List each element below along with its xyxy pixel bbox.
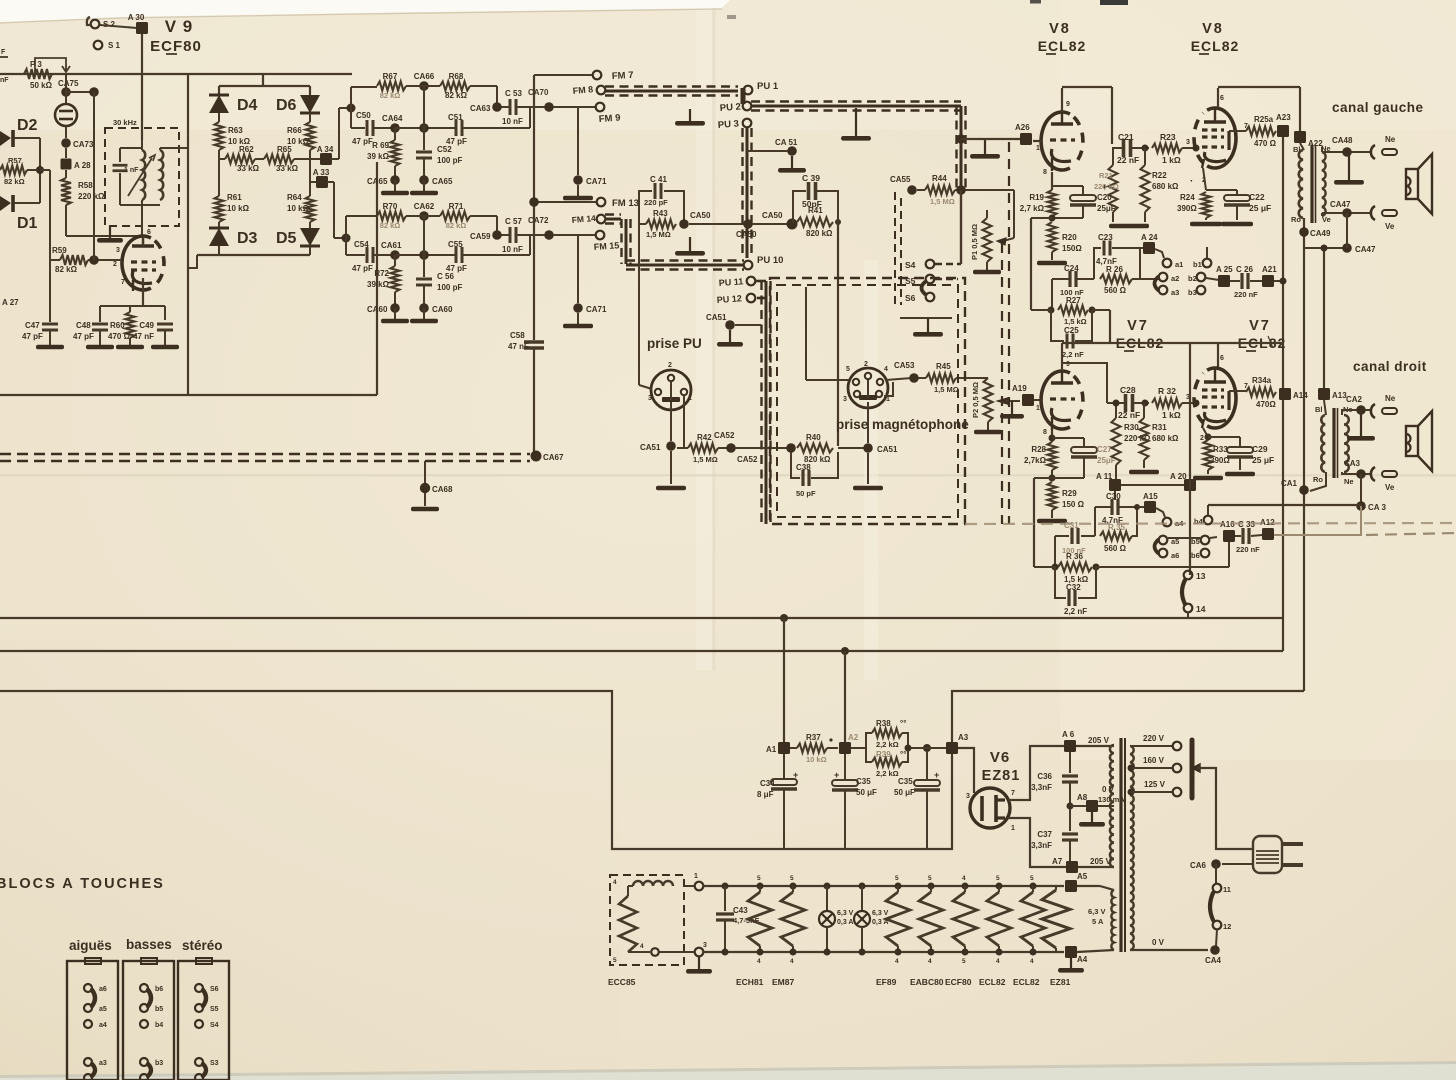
svg-text:1: 1 bbox=[694, 873, 698, 880]
svg-text:C21: C21 bbox=[1118, 132, 1134, 142]
svg-text:3,3nF: 3,3nF bbox=[1031, 783, 1052, 792]
node A7 bbox=[1052, 857, 1114, 873]
terminal 13 bbox=[1184, 571, 1206, 581]
svg-text:1,5 MΩ: 1,5 MΩ bbox=[934, 385, 959, 394]
wire CA3 down bbox=[1360, 474, 1362, 506]
svg-text:Ve: Ve bbox=[1385, 483, 1395, 492]
svg-text:R 32: R 32 bbox=[1158, 386, 1176, 396]
svg-text:C 41: C 41 bbox=[650, 175, 667, 184]
svg-text:1: 1 bbox=[688, 395, 692, 402]
wire A23 long vertical bbox=[1282, 137, 1284, 651]
svg-text:C23: C23 bbox=[1098, 233, 1113, 242]
svg-text:prise magnétophone: prise magnétophone bbox=[836, 417, 969, 432]
label V6 EZ81 bbox=[982, 749, 1021, 784]
svg-text:1,5 kΩ: 1,5 kΩ bbox=[1064, 317, 1087, 326]
svg-text:560 Ω: 560 Ω bbox=[1104, 544, 1127, 553]
svg-text:205 V: 205 V bbox=[1090, 857, 1112, 866]
svg-text:82 kΩ: 82 kΩ bbox=[380, 91, 401, 100]
svg-text:CA52: CA52 bbox=[714, 431, 735, 440]
resistor R20 bbox=[1037, 222, 1082, 265]
wire coil out bbox=[160, 147, 188, 149]
svg-text:CA65: CA65 bbox=[432, 177, 453, 186]
tap 220V bbox=[1130, 734, 1181, 750]
wire b5 east bbox=[1210, 537, 1217, 538]
svg-text:4: 4 bbox=[962, 875, 966, 882]
svg-text:12: 12 bbox=[1223, 922, 1231, 931]
node CA53 bbox=[894, 361, 919, 383]
svg-text:R33: R33 bbox=[1213, 445, 1228, 454]
terminal PU1 bbox=[743, 81, 779, 104]
svg-text:6: 6 bbox=[147, 229, 151, 236]
resistor R58 bbox=[61, 170, 105, 236]
svg-text:R57: R57 bbox=[8, 156, 22, 165]
resistor R22 bbox=[1141, 148, 1180, 222]
svg-text:R39: R39 bbox=[876, 750, 891, 759]
svg-text:C22: C22 bbox=[1249, 192, 1265, 202]
svg-text:4: 4 bbox=[1030, 958, 1034, 965]
junction C28 R32 bbox=[1142, 400, 1149, 407]
node CA68 ground bbox=[411, 461, 453, 511]
diode D4 bbox=[209, 86, 258, 114]
svg-text:82 kΩ: 82 kΩ bbox=[380, 221, 401, 230]
svg-text:D3: D3 bbox=[237, 230, 258, 247]
svg-text:a1: a1 bbox=[1175, 260, 1183, 269]
svg-text:13: 13 bbox=[1196, 571, 1206, 581]
svg-text:EZ81: EZ81 bbox=[982, 768, 1021, 784]
shield vertical P1 P2 bbox=[1002, 142, 1009, 524]
node A25 bbox=[1216, 265, 1233, 287]
node A6 bbox=[1062, 730, 1110, 752]
wire A20 vertical bbox=[1189, 343, 1191, 575]
svg-text:R66: R66 bbox=[287, 126, 302, 135]
svg-text:22 nF: 22 nF bbox=[1118, 410, 1140, 420]
node CA59 bbox=[470, 230, 502, 241]
svg-text:150Ω: 150Ω bbox=[1062, 244, 1082, 253]
mains plug bbox=[1253, 836, 1303, 873]
node A26 bbox=[1015, 123, 1032, 145]
svg-text:R63: R63 bbox=[228, 126, 243, 135]
capacitor C26 bbox=[1230, 265, 1262, 299]
svg-text:CA47: CA47 bbox=[1330, 200, 1351, 209]
prise PU socket bbox=[647, 336, 702, 410]
svg-text:A3: A3 bbox=[958, 733, 969, 742]
svg-text:4: 4 bbox=[884, 366, 888, 373]
node CA50a bbox=[679, 211, 711, 229]
node A30 bbox=[100, 22, 148, 34]
svg-text:CA50: CA50 bbox=[690, 211, 711, 220]
svg-text:39 kΩ: 39 kΩ bbox=[367, 152, 390, 161]
wire R41 down bbox=[837, 222, 839, 446]
svg-text:Ro: Ro bbox=[1313, 475, 1323, 484]
svg-text:EZ81: EZ81 bbox=[1050, 977, 1071, 987]
svg-text:220 kΩ: 220 kΩ bbox=[1094, 182, 1119, 191]
svg-text:C29: C29 bbox=[1252, 444, 1268, 454]
svg-text:a5: a5 bbox=[99, 1006, 107, 1013]
node A19 bbox=[1012, 384, 1034, 406]
wire R58 to coil bbox=[66, 235, 140, 237]
svg-text:47 nF: 47 nF bbox=[133, 332, 154, 341]
svg-text:R59: R59 bbox=[52, 246, 67, 255]
node A28 bbox=[61, 148, 92, 170]
shield stub CA55 bbox=[895, 192, 901, 305]
terminal 12 bbox=[1210, 893, 1231, 931]
svg-text:FM 14: FM 14 bbox=[571, 213, 596, 225]
wire to A13 bbox=[1321, 245, 1328, 389]
svg-text:b6: b6 bbox=[1191, 551, 1200, 560]
svg-text:33 kΩ: 33 kΩ bbox=[276, 164, 299, 173]
svg-text:470 Ω: 470 Ω bbox=[108, 332, 131, 341]
node A1 bbox=[766, 742, 790, 754]
label V7a bbox=[1116, 318, 1165, 351]
svg-text:5: 5 bbox=[928, 875, 932, 882]
svg-text:ECL82: ECL82 bbox=[1191, 38, 1240, 54]
wire OPT primary down long bbox=[1303, 218, 1305, 691]
svg-text:a3: a3 bbox=[1171, 288, 1179, 297]
label A27 bbox=[2, 298, 19, 307]
svg-text:0 V: 0 V bbox=[1152, 938, 1165, 947]
node CA50b bbox=[689, 219, 757, 239]
svg-text:5: 5 bbox=[962, 958, 966, 965]
svg-text:b6: b6 bbox=[155, 986, 163, 993]
svg-text:CA64: CA64 bbox=[382, 114, 403, 123]
svg-text:R19: R19 bbox=[1029, 193, 1044, 202]
svg-text:FM 15: FM 15 bbox=[593, 240, 619, 252]
svg-text:CA75: CA75 bbox=[58, 79, 79, 88]
diode D3 bbox=[209, 222, 258, 247]
node A16 bbox=[1220, 520, 1235, 567]
heater EF89 bbox=[886, 875, 910, 965]
svg-text:33 kΩ: 33 kΩ bbox=[237, 164, 260, 173]
terminal PU11 bbox=[718, 276, 755, 288]
capacitor C55 bbox=[446, 235, 530, 273]
terminal PU2 bbox=[719, 102, 751, 114]
svg-text:b3: b3 bbox=[1188, 288, 1197, 297]
svg-text:820 kΩ: 820 kΩ bbox=[806, 229, 833, 238]
resistor R64 bbox=[287, 193, 315, 222]
capacitor C54 bbox=[352, 240, 395, 273]
triode V7a bbox=[1036, 361, 1083, 436]
svg-text:R72: R72 bbox=[374, 269, 389, 278]
node A14 bbox=[1279, 388, 1308, 400]
svg-text:50 pF: 50 pF bbox=[796, 489, 816, 498]
svg-text:R61: R61 bbox=[227, 193, 242, 202]
svg-text:R71: R71 bbox=[449, 202, 464, 211]
wire R36 east bbox=[1034, 566, 1229, 568]
heater bus top bbox=[684, 873, 1064, 890]
svg-text:220 pF: 220 pF bbox=[644, 198, 668, 207]
svg-text:ECL82: ECL82 bbox=[1038, 38, 1087, 54]
tube labels heater bbox=[736, 977, 1071, 987]
svg-text:1: 1 bbox=[886, 396, 890, 403]
svg-text:C37: C37 bbox=[1037, 830, 1052, 839]
cathode network R19 C20 bbox=[1020, 172, 1116, 222]
svg-text:5: 5 bbox=[790, 875, 794, 882]
wire A6 to winding bbox=[1076, 745, 1114, 747]
svg-text:C25: C25 bbox=[1064, 326, 1079, 335]
svg-text:CA53: CA53 bbox=[894, 361, 915, 370]
svg-text:R34a: R34a bbox=[1252, 376, 1272, 385]
jack Ne droit bbox=[1371, 394, 1397, 418]
rectifier V6 bbox=[966, 788, 1015, 832]
cathode network R24 C22 bbox=[1177, 168, 1271, 226]
svg-text:R21: R21 bbox=[1099, 171, 1113, 180]
wire fb down bbox=[1034, 478, 1052, 567]
svg-text:7: 7 bbox=[1011, 790, 1015, 797]
svg-text:1,5 MΩ: 1,5 MΩ bbox=[693, 455, 718, 464]
power transformer bbox=[1110, 738, 1134, 952]
svg-text:50 μF: 50 μF bbox=[894, 788, 915, 797]
svg-text:C34: C34 bbox=[760, 779, 775, 788]
svg-text:R68: R68 bbox=[449, 72, 464, 81]
svg-text:390Ω: 390Ω bbox=[1177, 204, 1197, 213]
svg-text:R42: R42 bbox=[697, 433, 712, 442]
node CA6 bbox=[1190, 859, 1253, 870]
svg-text:b2: b2 bbox=[1188, 274, 1197, 283]
svg-text:CA65: CA65 bbox=[367, 177, 388, 186]
capacitor C25 bbox=[1051, 310, 1092, 359]
terminal FM8 bbox=[572, 84, 605, 96]
label blocs a touches bbox=[0, 876, 165, 892]
svg-text:CA49: CA49 bbox=[1310, 229, 1331, 238]
capacitor C36 bbox=[1031, 752, 1078, 803]
svg-text:C30: C30 bbox=[1106, 492, 1121, 501]
heater bus bottom bbox=[684, 942, 1064, 974]
svg-text:C 57: C 57 bbox=[505, 217, 522, 226]
node CA62 bbox=[406, 202, 440, 221]
svg-text:205 V: 205 V bbox=[1088, 736, 1110, 745]
resistor R45 bbox=[918, 362, 988, 394]
svg-text:C47: C47 bbox=[25, 321, 40, 330]
terminal a3 link bbox=[1155, 277, 1180, 297]
terminal b3 bbox=[1188, 286, 1205, 297]
svg-text:EM87: EM87 bbox=[772, 977, 794, 987]
wire A30 down bbox=[141, 34, 143, 140]
wire bus to A26 bbox=[956, 134, 1020, 158]
svg-text:10 nF: 10 nF bbox=[502, 245, 523, 254]
svg-text:CA 51: CA 51 bbox=[775, 138, 798, 147]
terminal S1 bbox=[94, 41, 121, 50]
svg-text:Ne: Ne bbox=[1344, 477, 1354, 486]
labels key blocks bbox=[69, 937, 223, 953]
svg-text:11: 11 bbox=[1223, 885, 1231, 894]
resistor R57 bbox=[0, 138, 50, 260]
wire CA61 row bbox=[395, 216, 456, 260]
capacitor C53 bbox=[497, 89, 546, 126]
svg-text:A2: A2 bbox=[848, 733, 859, 742]
wire V7a plate up bbox=[1061, 343, 1063, 371]
wire selector to plug bbox=[1198, 768, 1253, 849]
rail L2 bbox=[0, 647, 1283, 655]
svg-text:P2 0,5 MΩ: P2 0,5 MΩ bbox=[971, 382, 980, 418]
svg-text:C27: C27 bbox=[1097, 445, 1112, 454]
lamp 2 bbox=[854, 883, 889, 956]
wire A12 faded east bbox=[1274, 534, 1361, 536]
svg-text:82 kΩ: 82 kΩ bbox=[55, 265, 78, 274]
heater ECL82a bbox=[987, 875, 1011, 965]
terminal b6 bbox=[1191, 549, 1209, 560]
terminal a6 link bbox=[1155, 540, 1180, 560]
label canal gauche bbox=[1332, 100, 1424, 115]
svg-text:R70: R70 bbox=[383, 202, 398, 211]
svg-text:stéréo: stéréo bbox=[182, 938, 223, 953]
node CA47b bbox=[1304, 243, 1376, 254]
svg-text:b3: b3 bbox=[155, 1060, 163, 1067]
svg-text:5: 5 bbox=[757, 875, 761, 882]
svg-text:100 pF: 100 pF bbox=[437, 283, 462, 292]
faded bus long bbox=[965, 523, 1456, 524]
svg-text:V8: V8 bbox=[1049, 21, 1071, 37]
wire PU center ground bbox=[640, 382, 686, 490]
svg-text:basses: basses bbox=[126, 937, 172, 952]
svg-text:CA48: CA48 bbox=[1332, 136, 1353, 145]
svg-text:R25a: R25a bbox=[1254, 115, 1274, 124]
node A23 bbox=[1276, 113, 1291, 137]
svg-text:R29: R29 bbox=[1062, 489, 1077, 498]
wire 0V bbox=[1130, 938, 1208, 950]
svg-text:560 Ω: 560 Ω bbox=[1104, 286, 1127, 295]
node CA47 bbox=[1330, 200, 1352, 218]
resistor R70 bbox=[377, 202, 406, 230]
wire A19 to V7 grid bbox=[1034, 399, 1041, 401]
svg-text:C48: C48 bbox=[76, 321, 91, 330]
svg-text:C51: C51 bbox=[448, 113, 463, 122]
svg-text:PU 1: PU 1 bbox=[757, 81, 779, 92]
node CA2 bbox=[1346, 395, 1375, 441]
wire CA64 row bbox=[395, 86, 456, 133]
svg-text:P1 0,5 MΩ: P1 0,5 MΩ bbox=[970, 224, 979, 260]
svg-text:A 34: A 34 bbox=[317, 145, 334, 154]
resistor R36 bbox=[1052, 552, 1100, 584]
svg-text:CA68: CA68 bbox=[432, 485, 453, 494]
heater EM87 bbox=[781, 875, 805, 965]
shielded bus PU2 east bbox=[751, 102, 961, 111]
node CA51 ground2 bbox=[747, 138, 806, 173]
svg-text:a6: a6 bbox=[99, 986, 107, 993]
wire b2 east bbox=[1206, 278, 1219, 280]
resistor R21 bbox=[1094, 148, 1119, 222]
svg-text:2,2 nF: 2,2 nF bbox=[1064, 607, 1087, 616]
heater ECF80 bbox=[953, 875, 977, 965]
potentiometer P3 bbox=[24, 58, 70, 90]
svg-text:C24: C24 bbox=[1064, 264, 1079, 273]
svg-text:125 V: 125 V bbox=[1144, 780, 1166, 789]
node CA51c ground bbox=[838, 443, 898, 490]
svg-text:2,7 kΩ: 2,7 kΩ bbox=[1020, 204, 1045, 213]
svg-text:V8: V8 bbox=[1202, 21, 1224, 37]
svg-text:D4: D4 bbox=[237, 97, 258, 114]
wire R43 to PU pin3 bbox=[639, 224, 684, 448]
terminal S4 bbox=[905, 190, 961, 270]
svg-text:prise PU: prise PU bbox=[647, 336, 702, 351]
svg-text:4: 4 bbox=[895, 958, 899, 965]
svg-text:C58: C58 bbox=[510, 331, 525, 340]
jack Ve gauche bbox=[1371, 206, 1397, 231]
capacitor C56 bbox=[416, 255, 462, 308]
svg-text:6: 6 bbox=[1220, 95, 1224, 102]
wire V8b plate rail bbox=[1218, 87, 1300, 131]
svg-text:R64: R64 bbox=[287, 193, 302, 202]
svg-text:4: 4 bbox=[640, 943, 644, 950]
resistor R44 bbox=[917, 174, 1014, 206]
svg-text:CA72: CA72 bbox=[528, 216, 549, 225]
svg-text:10 nF: 10 nF bbox=[502, 117, 523, 126]
svg-text:CA59: CA59 bbox=[470, 232, 491, 241]
resistor R66 bbox=[287, 113, 315, 150]
svg-text:R30: R30 bbox=[1124, 423, 1139, 432]
svg-text:Ro: Ro bbox=[1291, 215, 1301, 224]
resistor R62 bbox=[219, 145, 264, 196]
svg-text:R38: R38 bbox=[876, 719, 891, 728]
svg-text:b1: b1 bbox=[1193, 260, 1202, 269]
ECC85 dashed box bbox=[608, 875, 684, 987]
dashed AGC bus bbox=[0, 454, 530, 461]
resistor R71 bbox=[440, 202, 497, 235]
node CA52a bbox=[714, 431, 736, 453]
svg-text:A 6: A 6 bbox=[1062, 730, 1075, 739]
svg-text:CA6: CA6 bbox=[1190, 861, 1207, 870]
svg-text:82 kΩ: 82 kΩ bbox=[446, 221, 467, 230]
svg-text:10 kΩ: 10 kΩ bbox=[287, 204, 310, 213]
svg-text:CA1: CA1 bbox=[1281, 479, 1298, 488]
svg-text:b4: b4 bbox=[1194, 517, 1204, 526]
label canal droit bbox=[1353, 359, 1427, 374]
svg-text:CA52: CA52 bbox=[737, 455, 758, 464]
svg-text:EABC80: EABC80 bbox=[910, 977, 944, 987]
svg-text:C50: C50 bbox=[356, 111, 371, 120]
resistor R37 bbox=[790, 733, 838, 764]
wire long vertical x534 bbox=[533, 75, 535, 340]
diode D2 bbox=[0, 117, 40, 147]
svg-text:50 μF: 50 μF bbox=[856, 788, 877, 797]
heater EZ81 6,3V 5A bbox=[1042, 886, 1106, 952]
svg-text:3,3nF: 3,3nF bbox=[1031, 841, 1052, 850]
svg-text:25 μF: 25 μF bbox=[1252, 455, 1274, 465]
svg-text:3: 3 bbox=[843, 396, 847, 403]
node CA49 bbox=[1299, 227, 1331, 238]
svg-text:0,3 A: 0,3 A bbox=[837, 919, 853, 926]
svg-text:D1: D1 bbox=[17, 215, 38, 232]
svg-text:EF89: EF89 bbox=[876, 977, 897, 987]
node CA72 bbox=[528, 216, 554, 240]
capacitor C38 bbox=[791, 452, 838, 498]
svg-text:680 kΩ: 680 kΩ bbox=[1152, 434, 1179, 443]
node CA70 bbox=[544, 102, 554, 112]
svg-text:R58: R58 bbox=[78, 181, 93, 190]
svg-text:1 nF: 1 nF bbox=[124, 167, 139, 174]
svg-text:C35: C35 bbox=[856, 777, 871, 786]
svg-text:50pF: 50pF bbox=[802, 199, 822, 209]
svg-text:220 kΩ: 220 kΩ bbox=[78, 192, 105, 201]
svg-text:C28: C28 bbox=[1120, 385, 1136, 395]
svg-text:82 kΩ: 82 kΩ bbox=[4, 177, 25, 186]
svg-text:FM 13: FM 13 bbox=[612, 198, 639, 209]
shielded bus PU11 down bbox=[755, 281, 771, 524]
wire V9 cathode down bbox=[142, 278, 144, 306]
key block aigues bbox=[67, 958, 118, 1080]
svg-text:ECL82: ECL82 bbox=[979, 977, 1006, 987]
triode-pentode V9 bbox=[113, 229, 164, 291]
svg-text:S6: S6 bbox=[905, 293, 916, 303]
capacitor C51 bbox=[446, 107, 530, 146]
faded bus right edge bbox=[1366, 533, 1456, 535]
svg-text:25 μF: 25 μF bbox=[1249, 203, 1271, 213]
svg-text:2: 2 bbox=[1200, 435, 1204, 442]
svg-text:10 kΩ: 10 kΩ bbox=[806, 755, 827, 764]
svg-text:CA51: CA51 bbox=[706, 313, 727, 322]
svg-text:CA60: CA60 bbox=[367, 305, 388, 314]
output transformer canal gauche bbox=[1291, 143, 1331, 224]
capacitor C43 bbox=[716, 883, 760, 956]
